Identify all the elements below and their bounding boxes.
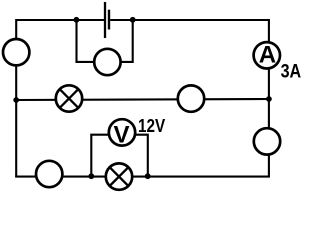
svg-text:A: A [259, 42, 276, 69]
svg-text:3A: 3A [281, 62, 302, 83]
svg-text:V: V [113, 122, 129, 149]
svg-text:12V: 12V [138, 116, 165, 136]
